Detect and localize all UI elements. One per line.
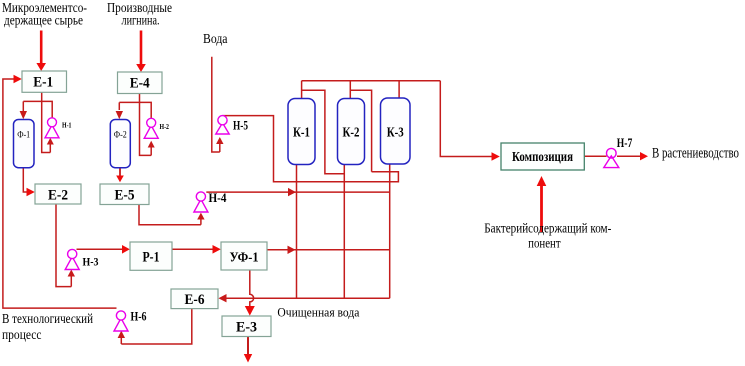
- unit УФ-1: [221, 242, 267, 270]
- wire: Р-1 to УФ-1: [172, 248, 214, 250]
- svg-text:лигнина.: лигнина.: [122, 13, 160, 28]
- arrow: into Е-3 top: [245, 306, 255, 316]
- wire: Е-1 bottom down: [42, 93, 51, 153]
- wire: УФ-1 discharge east: [267, 249, 390, 251]
- mixer Композиция: [501, 143, 584, 170]
- svg-text:Н-6: Н-6: [131, 310, 147, 324]
- svg-text:В технологический: В технологический: [2, 311, 93, 326]
- svg-text:держащее сырье: держащее сырье: [4, 13, 83, 28]
- label: Микроэлементсодержащее сырье: [2, 0, 87, 28]
- wire: header drop into К-2 top: [349, 81, 351, 99]
- wire: К-2 downcomer: [343, 165, 345, 299]
- svg-text:Н-1: Н-1: [62, 121, 72, 130]
- pump Н-5: [216, 116, 248, 134]
- arrow: into pump Н-2 suction: [148, 141, 155, 156]
- wire: recycle line H-6 to Е-1 left: [3, 79, 117, 308]
- column К-3: [381, 98, 411, 164]
- arrow: into pump Н-3 suction: [68, 270, 75, 287]
- wire: Е-5 bottom to pump Н-4: [139, 205, 201, 225]
- wire: Вода feed down to pump Н-5: [212, 57, 220, 152]
- arrow: into Е-6 right: [218, 294, 226, 302]
- pump Н-1: [45, 118, 72, 138]
- wire: Композиция to pump Н-7: [584, 155, 606, 157]
- wire: header drop into К-3 top: [398, 81, 400, 98]
- svg-text:Р-1: Р-1: [143, 250, 160, 266]
- svg-text:Н-7: Н-7: [617, 135, 633, 150]
- column К-2: [338, 99, 365, 165]
- wire: bottom collector to Е-6: [225, 297, 390, 299]
- wire: header right drop to Композиция: [440, 81, 492, 157]
- wire: pump Н-2 discharge up: [119, 102, 151, 118]
- arrow: into pump Н-1 suction: [47, 138, 54, 153]
- svg-text:В растениеводство: В растениеводство: [652, 146, 739, 162]
- pump Н-2: [144, 118, 169, 138]
- svg-text:Н-3: Н-3: [83, 255, 99, 269]
- wire: УФ-1 bottom down with hop: [250, 270, 254, 307]
- svg-text:Е-6: Е-6: [185, 292, 205, 308]
- svg-text:Е-1: Е-1: [33, 75, 53, 91]
- filter Ф-1: [14, 120, 35, 168]
- wire: Е-6 bottom to pump Н-6: [121, 309, 192, 344]
- arrow: into УФ-1 left: [213, 245, 221, 254]
- svg-text:К-3: К-3: [387, 126, 404, 141]
- svg-text:Н-4: Н-4: [209, 190, 227, 205]
- svg-text:Композиция: Композиция: [512, 149, 573, 164]
- label: В технологический процесс: [2, 311, 93, 342]
- vessel Е-4: [118, 72, 163, 94]
- wire: Е-4 bottom down: [140, 94, 152, 156]
- arrow: on Н-4 line at К-1 downcomer: [288, 188, 296, 196]
- pump Н-3: [65, 249, 98, 269]
- pump Н-7: [604, 135, 633, 168]
- vessel Е-1: [22, 71, 67, 92]
- svg-text:УФ-1: УФ-1: [230, 251, 259, 266]
- svg-text:Очищенная вода: Очищенная вода: [277, 305, 359, 320]
- svg-text:Ф-1: Ф-1: [17, 131, 30, 141]
- wire: pump Н-1 discharge up: [23, 101, 52, 118]
- wire: branch B down between К-2 К-3: [350, 90, 371, 172]
- svg-text:Е-3: Е-3: [236, 320, 257, 336]
- wire: pump Н-4 discharge east long: [206, 191, 389, 193]
- wire: branch A down between К-1 К-2: [302, 90, 345, 174]
- label: Производные лигнина: [107, 0, 172, 28]
- column К-1: [288, 99, 315, 165]
- pump Н-4: [194, 190, 227, 212]
- svg-text:Е-4: Е-4: [130, 76, 150, 92]
- pump Н-6: [114, 310, 147, 332]
- vessel Е-2: [35, 184, 81, 204]
- svg-text:понент: понент: [528, 236, 561, 251]
- vessel Е-3: [222, 316, 271, 337]
- svg-text:К-1: К-1: [293, 126, 310, 141]
- wire: pump Н-7 out: [617, 155, 641, 157]
- wire: Е-2 bottom to pump Н-3: [56, 204, 71, 287]
- svg-text:К-2: К-2: [343, 126, 360, 141]
- wire: К-1 downcomer: [296, 165, 298, 299]
- wire: header above columns: [302, 80, 441, 82]
- svg-text:Н-2: Н-2: [160, 122, 170, 131]
- arrow: Ф-2 bottom into Е-5 top: [116, 168, 124, 182]
- arrow: В растениеводство: [640, 152, 648, 160]
- arrow: into Ф-2 top: [116, 102, 123, 119]
- wire: Ф-1 bottom to Е-2: [23, 168, 27, 192]
- arrow: into pump Н-4 suction: [197, 213, 204, 225]
- filter Ф-2: [110, 120, 130, 168]
- arrow: into Р-1 left: [122, 245, 130, 254]
- vessel Е-6: [171, 289, 218, 309]
- arrow: into Композиция left: [492, 152, 500, 161]
- reactor Р-1: [130, 242, 172, 270]
- vessel Е-5: [100, 184, 149, 205]
- svg-text:Вода: Вода: [203, 32, 228, 47]
- label: Бактерийсодержащий компонент: [484, 221, 611, 251]
- arrow: Бактерийсодержащий компонент into Композиция: [537, 176, 547, 232]
- svg-text:Е-5: Е-5: [115, 188, 135, 204]
- svg-text:Е-2: Е-2: [48, 188, 68, 204]
- arrow: Е-3 bottom out: [244, 337, 252, 363]
- arrow: feed into Е-1 top: [36, 31, 46, 72]
- wire: pump Н-5 discharge to grid: [223, 116, 399, 182]
- svg-text:Бактерийсодержащий ком-: Бактерийсодержащий ком-: [484, 221, 611, 236]
- wire: header drop into К-1 top: [301, 81, 303, 99]
- svg-text:Ф-2: Ф-2: [114, 131, 127, 141]
- arrow: into pump Н-5 suction: [216, 137, 223, 152]
- arrow: into pump Н-6 suction: [118, 331, 125, 344]
- arrow: on УФ-1 line at К-1 downcomer: [288, 246, 296, 254]
- arrow: into Е-1 left: [14, 75, 22, 84]
- svg-text:Н-5: Н-5: [233, 119, 248, 133]
- arrow: feed into Е-4 top: [136, 31, 146, 73]
- arrow: into Е-2 left: [27, 188, 35, 197]
- wire: К-3 downcomer: [389, 164, 391, 298]
- svg-text:процесс: процесс: [2, 327, 42, 342]
- wire: pump Н-3 discharge to Р-1: [77, 248, 124, 250]
- arrow: into Ф-1 top: [20, 101, 27, 119]
